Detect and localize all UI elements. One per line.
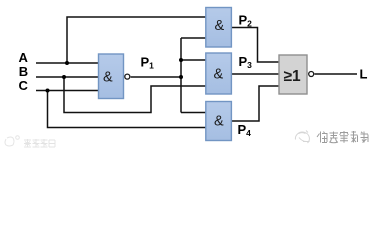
svg-text:B: B: [19, 64, 28, 79]
svg-text:&: &: [103, 70, 113, 86]
svg-text:P1: P1: [141, 55, 155, 71]
wire to G3 input 1: [181, 59, 206, 61]
AND gate G4: [206, 102, 232, 141]
wire B horizontal: [36, 76, 99, 78]
wire P1 fanout vertical: [180, 38, 182, 113]
junction node C: [46, 89, 50, 93]
wire A branch to top: [67, 17, 206, 63]
junction node A: [65, 61, 69, 65]
wire output L: [315, 73, 358, 75]
wire to G4 input 1: [181, 112, 206, 114]
svg-text:&: &: [214, 67, 224, 83]
junction node P1: [179, 75, 183, 79]
svg-text:C: C: [19, 78, 29, 93]
wire C horizontal: [36, 90, 99, 92]
wire P4 to U5: [231, 86, 279, 121]
NAND gate G1: [99, 54, 124, 99]
watermark text bottom-left: [24, 139, 55, 147]
junction node B: [62, 75, 66, 79]
junction node P1 upper: [179, 58, 183, 62]
logo icon bottom-right: [295, 131, 309, 144]
wire P3 to U5: [231, 73, 279, 75]
wire C branch to G4: [48, 91, 207, 128]
wire to G2 input 2: [181, 37, 206, 39]
G1 output bubble: [125, 74, 130, 79]
AND gate G2: [206, 8, 232, 48]
wire A horizontal: [36, 62, 99, 64]
NOR gate U5: [279, 55, 307, 94]
svg-text:≥1: ≥1: [284, 68, 302, 85]
wire P1: [131, 76, 181, 78]
wire B branch to G3: [64, 77, 206, 113]
svg-text:A: A: [19, 50, 29, 65]
logo text bottom-right: [317, 131, 368, 143]
svg-text:L: L: [360, 67, 368, 82]
svg-text:P4: P4: [238, 122, 252, 138]
svg-text:&: &: [215, 18, 225, 34]
svg-text:&: &: [214, 114, 224, 130]
svg-text:P2: P2: [239, 13, 253, 29]
wire P2 to U5: [231, 28, 279, 63]
U5 output bubble: [309, 72, 314, 77]
AND gate G3: [206, 53, 232, 94]
watermark logo bottom-left: [5, 136, 19, 146]
svg-text:P3: P3: [239, 54, 253, 70]
